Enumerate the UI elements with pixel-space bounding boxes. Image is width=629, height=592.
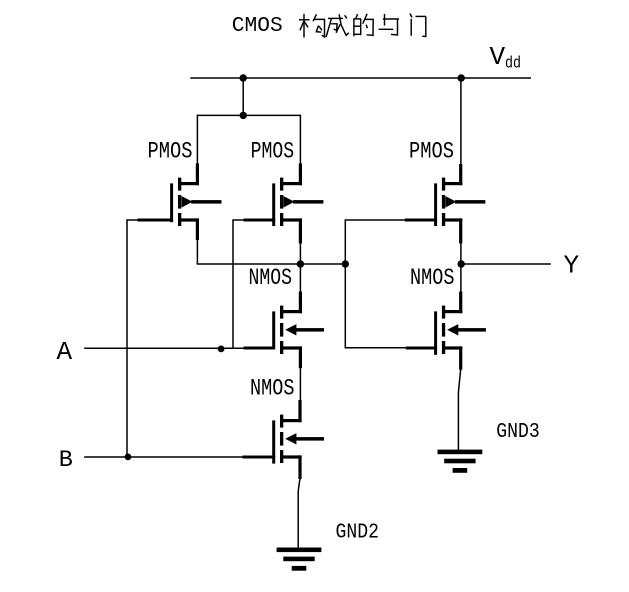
title character cheng	[326, 14, 349, 37]
svg-text:NMOS: NMOS	[249, 265, 293, 291]
svg-text:CMOS: CMOS	[232, 14, 283, 38]
wire PMOS pair top rail	[197, 114, 301, 116]
wire Vdd to PMOS3 source	[460, 78, 462, 165]
NMOS transistor NMOS A (series, NAND)	[244, 292, 324, 369]
svg-text:B: B	[59, 447, 73, 474]
wire NAND node to NMOS A drain	[299, 264, 301, 293]
junction dot NAND node / PMOS2-NMOSA	[297, 260, 304, 267]
svg-text:dd: dd	[505, 55, 521, 74]
svg-text:PMOS: PMOS	[409, 138, 454, 164]
svg-text:NMOS: NMOS	[250, 376, 295, 402]
wire rail to PMOS2 source	[299, 115, 301, 165]
PMOS transistor PMOS1 (input B, NAND)	[138, 163, 222, 240]
svg-text:GND2: GND2	[336, 521, 380, 545]
junction dot on input B wire	[125, 454, 132, 461]
junction dot Vdd rail / drop	[240, 74, 247, 81]
wire output node to NMOS3 drain	[460, 264, 462, 293]
ground symbol GND2	[277, 548, 322, 571]
NMOS transistor NMOS B (series, NAND)	[243, 400, 325, 479]
PMOS transistor PMOS2 (input A, NAND)	[244, 163, 324, 243]
wire NMOS B source to GND2	[298, 478, 300, 548]
wire NAND output node line	[197, 263, 345, 265]
svg-text:V: V	[490, 42, 506, 72]
svg-text:A: A	[57, 337, 73, 367]
junction dot NAND node / inverter gate	[342, 260, 349, 267]
wire NMOS3 source to GND3	[458, 369, 460, 450]
junction dot PMOS pair rail	[240, 112, 247, 119]
wire PMOS2 gate to node A	[233, 220, 244, 348]
Vdd label	[490, 42, 522, 74]
wire NMOS A source to NMOS B drain	[299, 367, 301, 401]
junction dot output node Y	[458, 260, 465, 267]
wire Vdd top rail	[190, 77, 531, 79]
svg-text:PMOS: PMOS	[148, 138, 193, 164]
wire PMOS1 gate to node B	[127, 220, 138, 457]
title character de	[354, 14, 373, 37]
svg-text:GND3: GND3	[496, 420, 540, 444]
wire Vdd drop to PMOS pair rail	[242, 78, 244, 115]
svg-text:Y: Y	[564, 250, 580, 280]
wire output Y	[461, 263, 551, 265]
ground symbol GND3	[438, 450, 483, 473]
NMOS transistor NMOS3 (inverter)	[406, 292, 486, 370]
wire input B	[84, 456, 243, 458]
title character gou	[299, 14, 325, 38]
wire PMOS1 drain to NAND output node	[196, 239, 198, 264]
junction dot on input A wire	[218, 346, 225, 353]
title character men	[410, 14, 426, 37]
PMOS transistor PMOS3 (inverter)	[405, 164, 486, 244]
wire PMOS2 drain to NAND output node	[299, 243, 301, 265]
title character yu	[379, 14, 399, 35]
junction dot Vdd rail / PMOS3	[458, 74, 465, 81]
wire rail to PMOS1 source	[196, 115, 198, 165]
wire input A	[84, 347, 244, 349]
wire PMOS3 drain to output node	[460, 243, 462, 265]
wire NAND node to inverter gates	[345, 220, 406, 348]
svg-text:NMOS: NMOS	[410, 265, 455, 291]
svg-text:PMOS: PMOS	[251, 138, 295, 164]
